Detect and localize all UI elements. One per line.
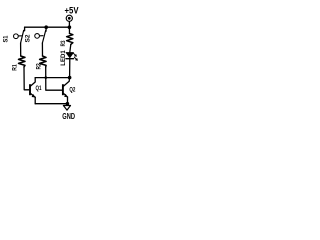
svg-text:Q2: Q2 [69, 87, 75, 94]
wire S1 to R1 [20, 43, 22, 56]
wire R2 down across collector rail to Q2 base [46, 67, 62, 90]
wire +5V to rail [68, 22, 70, 28]
svg-text:+5V: +5V [65, 6, 79, 16]
resistor R1 [19, 56, 26, 67]
resistor R2 [40, 56, 47, 67]
+5V supply terminal [66, 15, 72, 21]
LED LED1 [66, 53, 74, 58]
wire S2 top contact stub [45, 27, 47, 31]
node crossover blob [45, 76, 48, 79]
transistor Q1 [30, 78, 35, 87]
svg-text:R1: R1 [12, 64, 19, 71]
wire R1 to Q1 base [24, 67, 29, 90]
wire R3 to LED [70, 44, 71, 52]
resistor R3 [68, 27, 70, 33]
wire S1 top contact stub [24, 27, 26, 31]
svg-text:LED1: LED1 [60, 50, 67, 66]
wire collector rail [35, 77, 69, 79]
wire LED to collector rail [69, 59, 71, 77]
switch S1 [14, 34, 19, 39]
transistor Q2 [63, 78, 69, 87]
ground [66, 104, 68, 106]
node S2 top junction [44, 25, 48, 29]
svg-text:R2: R2 [36, 63, 43, 70]
svg-text:R3: R3 [60, 40, 67, 46]
wire top rail [25, 26, 70, 28]
LED1 emission arrows [73, 53, 76, 56]
wire S2 to R2 [41, 43, 43, 56]
node LED / Q2 collector junction [68, 76, 72, 80]
svg-text:Q1: Q1 [36, 85, 42, 92]
svg-text:S2: S2 [24, 34, 31, 43]
node ground junction [66, 102, 70, 106]
switch S2 [35, 34, 40, 39]
svg-text:S1: S1 [2, 35, 9, 43]
svg-text:GND: GND [62, 111, 75, 120]
wire emitter bottom rail [35, 103, 67, 105]
node rail / R3 junction [68, 25, 72, 29]
